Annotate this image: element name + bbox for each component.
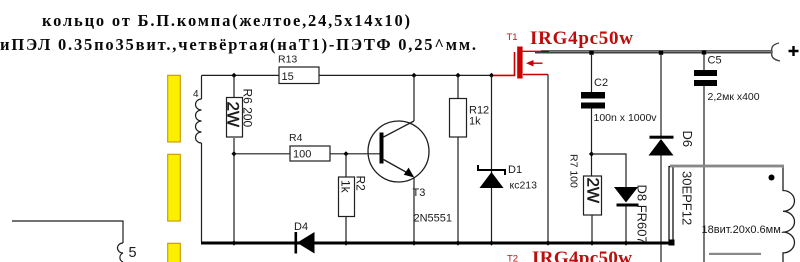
svg-text:R13: R13 bbox=[278, 54, 297, 66]
wire D1 top lead bbox=[491, 75, 493, 173]
wire C5 top lead bbox=[703, 54, 705, 70]
wire R4 to base bbox=[330, 153, 382, 155]
transistor T3 bbox=[368, 121, 429, 182]
diode D4 bbox=[295, 232, 298, 254]
wire top middle horizontal bbox=[319, 74, 493, 76]
svg-text:R7 100: R7 100 bbox=[568, 154, 580, 188]
rail node source bbox=[545, 240, 550, 245]
node C5 top bbox=[702, 50, 706, 54]
svg-text:100: 100 bbox=[293, 149, 311, 161]
svg-text:D4: D4 bbox=[294, 221, 308, 233]
wire R12 top lead bbox=[457, 75, 459, 98]
wire R4 left lead bbox=[234, 153, 290, 155]
svg-text:18вит.20х0.6мм.: 18вит.20х0.6мм. bbox=[702, 224, 784, 236]
svg-text:100n x 1000v: 100n x 1000v bbox=[594, 112, 658, 124]
rail node R6 bbox=[231, 240, 236, 245]
svg-text:15: 15 bbox=[282, 71, 294, 83]
svg-text:C2: C2 bbox=[594, 77, 608, 89]
wire R2 top lead bbox=[345, 154, 347, 177]
capacitor C5 bbox=[694, 70, 717, 76]
svg-text:IRG4pc50w: IRG4pc50w bbox=[530, 28, 633, 49]
wire C5 bottom lead bbox=[703, 86, 705, 262]
transformer core left edge bbox=[669, 167, 673, 243]
wire top left horizontal bbox=[202, 74, 280, 76]
plus sign bbox=[789, 46, 799, 56]
wire left vertical bbox=[201, 75, 203, 242]
svg-text:2W: 2W bbox=[224, 102, 243, 128]
node R6/R4 junction bbox=[231, 151, 236, 156]
wire branch to D8 bbox=[592, 154, 627, 187]
svg-text:R6 200: R6 200 bbox=[241, 89, 255, 128]
wire bottom-left to winding 5 bbox=[12, 221, 123, 243]
phase dot bbox=[769, 175, 775, 181]
wire emitter down bbox=[413, 177, 415, 242]
svg-text:R2: R2 bbox=[354, 176, 368, 192]
node C2/R7/D8 junction bbox=[589, 151, 594, 156]
node C2 top bbox=[589, 50, 593, 54]
svg-text:R4: R4 bbox=[289, 132, 303, 144]
svg-text:30EPF12: 30EPF12 bbox=[680, 171, 695, 225]
transformer internal line bbox=[709, 253, 761, 255]
svg-text:D8 FR607: D8 FR607 bbox=[635, 185, 650, 244]
source lead red bbox=[523, 74, 548, 76]
rail node emitter bbox=[411, 240, 416, 245]
transformer winding right bbox=[783, 168, 795, 262]
node D6 top bbox=[659, 50, 663, 54]
resistor R2 bbox=[339, 177, 355, 217]
wire R7 bottom lead bbox=[591, 215, 593, 242]
top double rail bbox=[541, 50, 771, 52]
arrow red bbox=[526, 60, 534, 66]
diode D8 bbox=[614, 187, 638, 203]
wire collector up bbox=[413, 75, 415, 121]
ferrite core yellow bar 3 bbox=[168, 243, 181, 262]
wire D8 bottom lead bbox=[625, 207, 627, 243]
svg-text:T2: T2 bbox=[507, 254, 518, 262]
wire C2 bottom lead bbox=[591, 109, 593, 177]
wire C2 top lead bbox=[591, 54, 593, 92]
winding L5 bbox=[118, 243, 123, 262]
zener diode D1 bbox=[478, 165, 505, 175]
diode D6 bbox=[650, 136, 674, 139]
svg-text:C5: C5 bbox=[708, 55, 722, 67]
svg-text:1k: 1k bbox=[339, 180, 353, 194]
rail node R2 bbox=[343, 240, 348, 245]
svg-text:2W: 2W bbox=[583, 178, 602, 204]
ferrite core yellow bar 1 bbox=[168, 75, 181, 142]
svg-text:D1: D1 bbox=[508, 164, 522, 176]
capacitor C2 bbox=[581, 92, 605, 99]
resistor R6 bbox=[227, 98, 243, 138]
ferrite core yellow bar 2 bbox=[168, 154, 181, 221]
svg-text:2,2мк х400: 2,2мк х400 bbox=[708, 91, 760, 103]
wire R6 bottom to rail bbox=[233, 138, 235, 242]
svg-text:2N5551: 2N5551 bbox=[414, 213, 453, 225]
resistor R13 bbox=[279, 67, 319, 84]
rail node R7 bbox=[589, 240, 594, 245]
node R2 junction bbox=[343, 151, 348, 156]
IGBT body bar red bbox=[517, 47, 522, 79]
node top collector bbox=[411, 73, 416, 78]
svg-text:4: 4 bbox=[193, 89, 199, 100]
winding L4 bbox=[196, 99, 202, 143]
rail node core bbox=[669, 240, 675, 246]
wire R2 bottom to rail bbox=[345, 217, 347, 243]
resistor R7 bbox=[584, 176, 602, 215]
svg-text:IRG4pc50w: IRG4pc50w bbox=[532, 248, 632, 262]
node top R12 bbox=[455, 73, 460, 78]
wire D6 top lead bbox=[660, 54, 662, 138]
rail node R12 bbox=[455, 240, 460, 245]
wire D6 bottom lead bbox=[660, 156, 662, 262]
svg-text:1k: 1k bbox=[469, 116, 481, 128]
drain lead red bbox=[523, 50, 549, 52]
wire R6 top lead bbox=[233, 75, 235, 97]
bottom rail bbox=[201, 242, 672, 245]
svg-text:кольцо от Б.П.компа(желтое,24,: кольцо от Б.П.компа(желтое,24,5х14х10) bbox=[42, 11, 410, 30]
rail break symbol bbox=[772, 43, 780, 61]
wire R12 bottom lead bbox=[457, 137, 459, 242]
rail node D1 bbox=[489, 240, 494, 245]
svg-text:T1: T1 bbox=[507, 32, 518, 43]
node top D1/gate bbox=[489, 73, 494, 78]
svg-text:D6: D6 bbox=[680, 131, 695, 148]
transformer top edge bbox=[670, 165, 784, 168]
svg-text:кс213: кс213 bbox=[510, 180, 538, 192]
gate wire red bbox=[493, 52, 515, 75]
svg-text:5: 5 bbox=[129, 245, 137, 261]
rail node D8 bbox=[623, 240, 628, 245]
resistor R4 bbox=[290, 146, 330, 161]
node top of R6 bbox=[231, 73, 236, 78]
wire source down bbox=[547, 75, 549, 243]
wire D1 bottom lead bbox=[491, 188, 493, 242]
resistor R12 bbox=[450, 99, 467, 138]
